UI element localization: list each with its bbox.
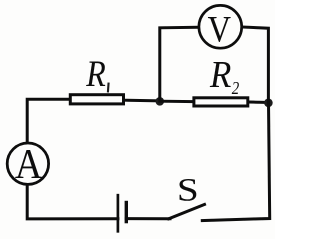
wire junction to R2 <box>160 100 193 103</box>
node junction dot <box>156 97 165 106</box>
svg-text:V: V <box>208 8 231 50</box>
svg-text:A: A <box>15 140 42 187</box>
label R1 subscript 1 <box>107 83 110 93</box>
wire right vertical to bottom corner <box>202 103 269 221</box>
resistor R2 <box>194 98 248 106</box>
wire voltmeter branch up-left <box>160 27 198 101</box>
battery short plate <box>125 203 128 222</box>
svg-text:R: R <box>209 52 231 95</box>
svg-text:2: 2 <box>232 78 239 99</box>
wire R1 to junction <box>125 99 160 103</box>
ammeter A <box>7 143 48 184</box>
wire voltmeter right down to node <box>242 27 268 103</box>
switch S blade <box>169 204 205 218</box>
svg-text:R: R <box>85 53 105 95</box>
wire left vertical (top corner to ammeter) <box>27 99 69 142</box>
resistor R1 <box>70 95 123 104</box>
wire switch pivot to battery <box>126 217 170 220</box>
voltmeter V <box>199 5 242 48</box>
wire battery to bottom-left corner and up <box>27 186 118 219</box>
battery long plate <box>117 195 120 231</box>
svg-text:S: S <box>177 171 199 207</box>
wire R2 to right node <box>249 101 268 105</box>
node right dot <box>264 99 273 108</box>
